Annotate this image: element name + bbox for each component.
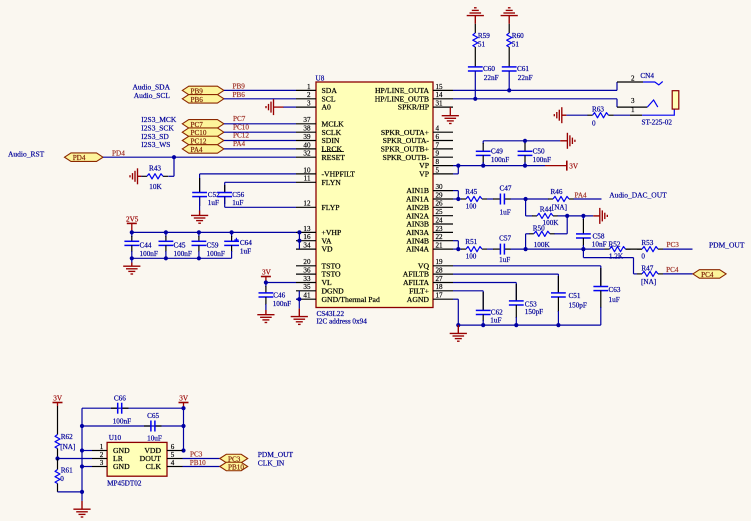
svg-text:C51: C51 [569,292,581,300]
svg-text:1uF: 1uF [232,199,243,207]
wire VP rail to 3V [453,165,567,167]
capacitor C59 [192,232,225,258]
wire pin2 LR to left rail [58,458,93,460]
port PA4 [182,145,224,154]
wire R53 to PDM_OUT [663,248,693,250]
junction VDD [181,448,185,452]
svg-text:PDM_OUT: PDM_OUT [709,240,745,249]
node PDM_OUT label (mic) [258,450,294,459]
svg-text:17: 17 [436,292,444,300]
svg-text:C62: C62 [491,309,503,317]
ground at R63 [554,107,566,123]
wire pin 19 VQ to C63 [453,266,601,287]
wire pins 13/16/34 bracket [298,232,300,249]
svg-text:1.2K: 1.2K [609,252,624,260]
wire AGND bottom rail [458,324,601,326]
capacitor C58 [576,216,607,249]
pin 16 (VA) of U8 [296,233,332,245]
ground at pin 31 SPKR/HP [442,107,459,123]
resistor R51 [461,238,487,261]
svg-text:FLYP: FLYP [322,203,340,212]
svg-text:GND: GND [113,462,130,471]
svg-text:R63: R63 [592,106,604,114]
svg-text:Audio_RST: Audio_RST [8,150,45,159]
pin 22 (AIN4B) of U8 [406,233,453,245]
wire R45 to C47 [487,198,494,200]
junction C50 bottom [523,164,527,168]
capacitor C57 [493,235,511,265]
connector CN4 label [640,72,654,80]
capacitor C44 [124,232,157,258]
svg-text:3V: 3V [179,394,189,402]
net label PB9 [233,83,246,91]
svg-text:C49: C49 [491,148,503,156]
node CLK_IN label (mic) [258,458,285,467]
net label PB6 [233,91,246,99]
svg-text:PD4: PD4 [73,154,86,162]
port PC3 (mic) [220,454,248,463]
capacitor C49 [476,141,509,166]
svg-text:A0: A0 [322,103,332,112]
net label PC4 [666,266,679,274]
svg-text:100nF: 100nF [140,250,158,258]
svg-text:R61: R61 [61,466,73,474]
wire R46 to Audio_DAC_OUT [574,198,602,200]
svg-text:PB6: PB6 [191,96,204,104]
pin 5 (DOUT) of U10 [140,451,183,463]
resistor R47 [637,265,663,286]
node I2S3_MCK label [141,115,177,124]
resistor R52 [605,240,631,260]
svg-text:1uF: 1uF [208,199,219,207]
svg-text:C47: C47 [500,184,512,192]
ground under C52 [191,211,208,224]
svg-text:2: 2 [100,451,104,459]
svg-text:C65: C65 [147,412,159,420]
svg-text:PA4: PA4 [233,140,246,148]
svg-text:3: 3 [307,100,311,108]
svg-text:I2C address 0x94: I2C address 0x94 [317,318,368,326]
svg-text:3: 3 [100,459,104,467]
svg-text:R52: R52 [609,240,621,248]
pin 9 (SPKR_OUTB-) of U8 [382,150,453,162]
junction C65 left [80,424,84,428]
wire R44 node down to R50 [566,216,568,234]
pin 7 (SPKR_OUTB+) of U8 [381,141,453,153]
wire R47 to port PC4 [663,273,693,275]
junction C61 on HP/LINE_OUTA [507,88,511,92]
svg-text:41: 41 [303,292,311,300]
svg-text:0: 0 [592,120,596,128]
net label PC3 (PDM) [667,241,680,249]
junction 2V5/C44 [130,230,134,234]
svg-text:R44: R44 [540,205,552,213]
svg-text:16: 16 [303,233,311,241]
svg-text:PB10: PB10 [228,464,244,472]
pin 20 (TSTO) of U8 [296,258,341,270]
svg-text:CS43L22: CS43L22 [317,310,345,318]
pin 4 (CLK) of U10 [146,459,183,471]
svg-text:100K: 100K [534,241,551,249]
svg-text:C56: C56 [232,191,244,199]
power port 2V5 [126,215,139,232]
capacitor C65 [144,412,162,442]
pin 6 (SPKR_OUTA-) of U8 [383,133,453,145]
svg-text:10: 10 [303,166,311,174]
svg-text:40: 40 [303,141,311,149]
svg-text:5: 5 [436,166,440,174]
wire down to R47 [583,249,637,274]
svg-text:100nF: 100nF [113,417,131,425]
svg-text:8: 8 [436,158,440,166]
svg-text:C66: C66 [114,395,126,403]
junction LR node [55,456,59,460]
svg-text:VP: VP [419,170,429,179]
svg-text:SPKR/HP: SPKR/HP [398,103,429,112]
pin 12 (FLYP) of U8 [296,200,340,212]
wire pin 28 AFILTB to C51 [453,274,558,293]
pin 1 (GND) of U10 [92,443,130,455]
wire PA4 to pin 40 [224,148,296,150]
pin 27 (AFILTA) of U8 [403,275,453,287]
svg-text:22nF: 22nF [484,74,499,82]
svg-text:27: 27 [436,275,444,283]
resistor R44 [532,205,559,227]
svg-text:R60: R60 [512,32,524,40]
resistor R61 [55,459,73,492]
svg-text:14: 14 [436,91,444,99]
wire pin 27 AFILTA to C53 [453,283,516,301]
node Audio_DAC_OUT label [609,191,667,200]
svg-text:C60: C60 [483,65,495,73]
ground mic [73,501,90,517]
ground at pin 3 A0 [266,99,283,115]
power port 3V right (mic) [179,394,189,408]
junction AGND rail left [456,323,460,327]
svg-text:3: 3 [631,97,635,105]
wire rail to ground [131,258,133,262]
svg-text:PC3: PC3 [667,241,680,249]
svg-text:1uF: 1uF [240,248,251,256]
connector CN4 jack barrel ST-225-02 [642,91,679,127]
pin 18 (FILT+) of U8 [409,283,453,295]
svg-text:51: 51 [478,41,486,49]
wire to R45 [458,198,461,200]
node Audio_SDA label [132,82,170,91]
node Audio_RST label [8,150,45,159]
node Audio_SCL label [134,91,171,100]
svg-text:C59: C59 [207,241,219,249]
svg-text:5: 5 [171,451,175,459]
svg-text:1: 1 [100,443,104,451]
svg-text:1uF: 1uF [499,256,510,264]
wire C65 rail [82,425,184,427]
junction AIN1A [456,197,460,201]
pin 15 (HP/LINE_OUTA) of U8 [375,83,453,95]
junction R50 on AIN4A wire [524,247,528,251]
wire AIN4B/AIN4A bracket [453,241,458,249]
capacitor C64 (polarized) [224,232,252,258]
pin 5 (VP) of U8 [419,166,453,178]
svg-text:2V5: 2V5 [126,215,139,223]
svg-text:PC10: PC10 [233,123,249,131]
svg-text:R45: R45 [465,188,477,196]
junction 3V/C66 [181,406,185,410]
svg-text:100: 100 [466,203,477,211]
net label PC10 [233,123,249,131]
svg-text:Audio_SCL: Audio_SCL [134,91,171,100]
wire pin 14 HP/LINE_OUTB to CN4 [453,99,617,107]
pin 2 (LR) of U10 [92,451,124,463]
port PC4 [693,270,726,279]
node I2S3_SD label [141,132,169,141]
pin 40 (LRCK) of U8 [296,141,342,153]
wire to R51 [458,248,461,250]
wire C66 rail [82,407,184,409]
wire node to R46 [526,198,549,200]
resistor R59 [473,24,490,67]
pin 34 (VD) of U8 [296,242,333,254]
power port 3V at VL [261,268,272,282]
wire C47 to node [511,198,526,200]
ground above R59 (inverted) [467,8,484,24]
wire 3V down to VDD pin 6 [183,408,185,450]
pin 26 (AIN2B) of U8 [406,200,453,212]
capacitor C62 [476,292,503,325]
capacitor C52 [192,178,220,207]
svg-text:I2S3_WS: I2S3_WS [141,140,170,149]
pin 3 (GND) of U10 [92,459,130,471]
pin 33 (VL) of U8 [296,275,332,287]
svg-text:100nF: 100nF [207,250,225,258]
svg-text:34: 34 [303,242,311,250]
svg-text:1uF: 1uF [500,208,511,216]
svg-text:22nF: 22nF [518,74,533,82]
junction VP [456,164,460,168]
svg-text:PA4: PA4 [191,146,204,154]
svg-text:ST-225-02: ST-225-02 [642,119,673,127]
wire PC12 to pin 39 [224,140,296,142]
port PC12 [182,136,224,145]
pin 19 (VQ) of U8 [418,258,453,270]
port PC7 [182,120,224,129]
junction C45 bottom [164,256,168,260]
pin 13 (+VHP) of U8 [296,225,341,237]
pin 21 (AIN4A) of U8 [406,242,453,254]
svg-text:23: 23 [436,225,444,233]
resistor R50 [529,224,555,249]
svg-text:AIN4A: AIN4A [406,245,430,254]
svg-text:20: 20 [303,258,311,266]
svg-text:PA4: PA4 [575,191,588,199]
svg-text:R51: R51 [465,238,477,246]
svg-text:PC4: PC4 [666,266,679,274]
capacitor C61 [502,65,533,90]
junction C64 top [230,230,234,234]
svg-text:4: 4 [436,125,440,133]
svg-text:PB10: PB10 [190,459,206,467]
pin 35 (DGND) of U8 [296,283,344,295]
svg-text:AGND: AGND [407,295,430,304]
ground under 2V5 rail [123,263,140,275]
pin 11 (FLYN) of U8 [296,175,341,187]
pin 25 (AIN2A) of U8 [406,208,453,220]
overbar for RESET pin name [322,151,345,153]
wire R44 to ground node [558,215,594,217]
junction C45 top [164,230,168,234]
pin 10 (-VHPFILT) of U8 [296,166,355,178]
junction C50 top [523,139,527,143]
svg-text:U8: U8 [316,75,325,83]
svg-text:C45: C45 [174,241,186,249]
wire pin 10 -VHPFILT [200,174,296,193]
wire PB6 to pin 2 [224,98,296,100]
svg-text:19: 19 [436,258,444,266]
svg-text:C44: C44 [140,241,152,249]
svg-text:10nF: 10nF [592,241,607,249]
node PDM_OUT label [709,240,745,249]
ground at VP filter rail [560,133,575,149]
resistor R62 [55,406,75,459]
wire R50 right lead [554,233,567,235]
svg-text:CLK_IN: CLK_IN [258,458,285,467]
svg-text:100: 100 [466,253,477,261]
svg-text:R47: R47 [641,265,653,273]
pin 24 (AIN3B) of U8 [406,216,453,228]
wire C56 to FLYP pin 12 [225,197,296,208]
svg-text:U10: U10 [109,434,122,442]
svg-text:6: 6 [436,133,440,141]
svg-text:C46: C46 [273,291,285,299]
capacitor C45 [159,232,192,258]
svg-text:15: 15 [436,83,444,91]
junction C51 bottom [556,323,560,327]
svg-text:51: 51 [512,41,520,49]
wire bottom rail of 2V5 caps [132,257,232,259]
net label PD4 [112,149,125,157]
junction C49 bottom [481,164,485,168]
ground above R60 (inverted) [501,8,518,24]
net label PC12 [233,132,249,140]
wire mic ground rail [81,408,83,492]
node I2S3_WS label [141,140,170,149]
svg-text:GND/Thermal Pad: GND/Thermal Pad [322,295,380,304]
svg-text:100nF: 100nF [174,250,192,258]
svg-text:PC7: PC7 [233,115,246,123]
ground at R43 [130,168,141,184]
pin 8 (VP) of U8 [419,158,453,170]
IC U10 MP45DT02 body [107,434,167,488]
svg-text:13: 13 [303,225,311,233]
pin 39 (SDIN) of U8 [296,133,340,145]
wire node down to R44 [526,199,533,216]
resistor R53 [637,239,663,260]
svg-text:C58: C58 [593,232,605,240]
svg-text:R59: R59 [478,32,490,40]
svg-text:CN4: CN4 [640,72,654,80]
svg-text:26: 26 [436,200,444,208]
svg-text:100nF: 100nF [491,156,509,164]
ground under pin 41 [291,309,308,325]
pin 31 (SPKR/HP) of U8 [398,100,453,112]
net label PB10 (mic) [190,459,206,467]
wire VP pins 8/5 bracket [453,166,458,174]
junction C47 output node [524,197,528,201]
junction C59 top [197,230,201,234]
svg-text:21: 21 [436,242,444,250]
pin 29 (AIN1A) of U8 [406,191,453,203]
wire C52 to ground [199,197,201,211]
svg-text:35: 35 [303,283,311,291]
svg-text:FLYN: FLYN [322,178,342,187]
wire pin 18 FILT+ to C62 [453,291,483,311]
svg-text:[NA]: [NA] [60,443,75,451]
resistor R46 [548,188,574,211]
svg-text:Audio_DAC_OUT: Audio_DAC_OUT [609,191,667,200]
svg-text:PC3: PC3 [190,451,203,459]
port PD4 [65,153,104,162]
power port 3V at VP [567,161,579,171]
junction on RESET wire [172,155,176,159]
junction mic GND pin 3 [80,464,84,468]
resistor R63 [588,106,614,128]
port PC10 [182,128,224,137]
svg-text:1: 1 [307,83,311,91]
svg-text:2: 2 [631,74,635,82]
wire 3V to pin 33 VL [266,282,296,284]
port PB10 (mic) [220,462,248,471]
port PB9 [182,86,224,95]
pin 32 (RESET) of U8 [296,150,345,162]
svg-text:R46: R46 [551,188,563,196]
svg-text:100nF: 100nF [533,156,551,164]
svg-text:38: 38 [303,125,311,133]
svg-text:1uF: 1uF [490,316,501,324]
pin 38 (SCLK) of U8 [296,125,342,137]
svg-text:11: 11 [304,175,311,183]
svg-text:MP45DT02: MP45DT02 [107,480,142,488]
wire pins 35/41 to ground [296,291,299,309]
svg-text:6: 6 [171,443,175,451]
junction +VHP pin 13 [297,230,301,234]
svg-text:3V: 3V [53,394,63,402]
wire R50 left to AIN4A wire [526,234,530,249]
svg-text:1: 1 [631,106,635,114]
pin 1 of CN4 [614,106,643,115]
wire ground to R63 [566,114,587,116]
svg-text:33: 33 [303,275,311,283]
wire pin 15 HP/LINE_OUTA to CN4 [453,82,617,90]
net label PC7 [233,115,246,123]
IC U8 CS43L22 body [316,75,434,326]
svg-text:VD: VD [322,245,334,254]
svg-text:9: 9 [436,150,440,158]
svg-text:PD4: PD4 [112,149,125,157]
svg-text:25: 25 [436,208,444,216]
pin 6 (VDD) of U10 [144,443,182,455]
svg-text:4: 4 [171,459,175,467]
svg-text:C61: C61 [517,65,529,73]
capacitor C47 [493,184,512,216]
net label PA4 (DAC out) [575,191,588,199]
svg-text:C63: C63 [609,286,621,294]
wire PC7 to pin 37 [224,123,296,125]
svg-text:[NA]: [NA] [552,203,567,211]
wire 2V5 rail to pin 13 [132,231,296,233]
wire R43 to ground [141,175,142,177]
svg-text:24: 24 [436,216,444,224]
svg-text:R53: R53 [641,239,653,247]
